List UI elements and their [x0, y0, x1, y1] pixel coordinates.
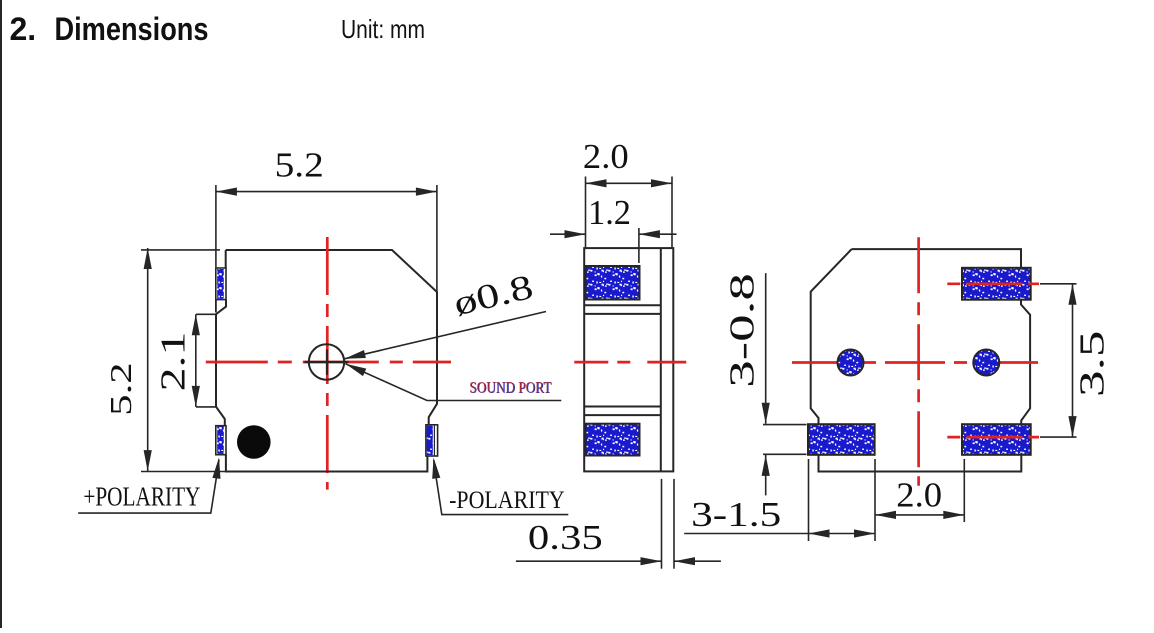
svg-text:2.0: 2.0 — [896, 476, 942, 515]
top view red vertical centerline — [326, 237, 329, 490]
side view inner vertical line (plate) — [660, 248, 662, 471]
page left border — [0, 0, 2, 628]
polarity marker dot — [237, 425, 271, 459]
dim 3-0.8 extension lines — [763, 424, 807, 426]
dim 2.0 side line — [586, 182, 673, 184]
side view body outline — [584, 248, 673, 471]
dim 3-1.5 line — [684, 533, 875, 535]
side view lower band lines — [584, 406, 661, 408]
top view pad bottom-left — [216, 426, 226, 455]
svg-text:0.35: 0.35 — [528, 518, 603, 557]
dim 3.5 line — [1072, 284, 1074, 437]
side view upper band lines — [584, 304, 661, 306]
sound port hole circle — [309, 344, 344, 379]
svg-text:5.2: 5.2 — [275, 145, 324, 184]
top view pad bottom-right — [426, 425, 438, 456]
svg-text:2.0: 2.0 — [583, 137, 629, 176]
svg-text:3.5: 3.5 — [1073, 331, 1112, 398]
side view red centerline — [574, 361, 686, 364]
dim 1.2 lines — [550, 233, 586, 235]
bottom view pad top-right — [962, 268, 1031, 300]
red centerline through top-right pad — [947, 282, 1039, 285]
hole center cross — [305, 361, 349, 363]
dim 5.2 vertical line — [147, 248, 149, 471]
dim 2.0 bottom extension line — [963, 459, 965, 522]
dim 0.35 lines — [516, 560, 662, 562]
dim 5.2 horizontal extension lines — [215, 185, 217, 267]
small edge segment below top-left pad — [215, 300, 217, 313]
svg-text:3-0.8: 3-0.8 — [723, 273, 762, 388]
label -POLARITY leader — [434, 460, 569, 515]
bottom view pad bottom-left — [808, 424, 875, 455]
svg-text:1.2: 1.2 — [588, 193, 631, 232]
svg-text:3-1.5: 3-1.5 — [691, 495, 781, 534]
dim 2.0 side extension lines — [585, 177, 587, 249]
dim 3-0.8 lines — [765, 273, 767, 424]
top view body outline — [226, 250, 437, 425]
svg-text:-POLARITY: -POLARITY — [449, 487, 565, 514]
side view bottom pad — [586, 424, 640, 456]
svg-text:+POLARITY: +POLARITY — [83, 481, 200, 511]
top view red horizontal centerline — [206, 361, 451, 364]
svg-text:2.1: 2.1 — [154, 332, 193, 392]
svg-text:5.2: 5.2 — [103, 362, 138, 415]
dim 2.1 extension lines — [196, 313, 216, 315]
svg-text:SOUND PORT: SOUND PORT — [469, 380, 551, 397]
dim 0.35 extension lines — [661, 479, 663, 569]
bottom view hole left — [838, 350, 864, 376]
bottom view pad bottom-right — [962, 424, 1031, 455]
dim 5.2 horizontal line — [216, 191, 437, 193]
svg-text:2.: 2. — [10, 11, 37, 47]
dim 3-1.5 extension lines — [808, 459, 810, 541]
bottom view hole right — [973, 350, 999, 376]
red centerline through bottom-right pad — [947, 436, 1039, 439]
bottom view red vertical centerline — [917, 237, 920, 486]
leader line to sound port label — [346, 364, 562, 401]
top view pad top-left — [216, 268, 226, 300]
side view top pad — [586, 266, 640, 300]
label +POLARITY leader — [78, 460, 219, 514]
bottom view red horizontal centerline — [792, 361, 1041, 364]
dim 2.1 line — [195, 314, 197, 407]
svg-text:Dimensions: Dimensions — [55, 11, 209, 47]
bottom view body outline — [852, 249, 1021, 268]
dim 3.5 extension lines — [1040, 283, 1077, 285]
dim 5.2 vertical extension lines — [141, 249, 220, 251]
leader line to hole (diameter label) — [345, 312, 547, 359]
svg-text:Unit: mm: Unit: mm — [341, 14, 425, 44]
dim 1.2 extension line — [638, 228, 640, 263]
dim 2.0 bottom line — [875, 514, 964, 516]
